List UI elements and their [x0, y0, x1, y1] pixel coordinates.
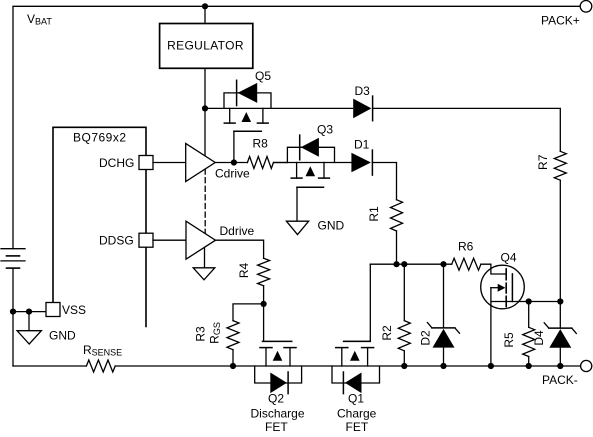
transistor Q5 (PMOS with body diode) [224, 80, 271, 131]
wire bottom rail to PACK- [115, 365, 580, 367]
resistor R4 [258, 258, 270, 286]
wire Q3 gate to ground [296, 187, 298, 221]
wire D3 to R7 [373, 108, 561, 151]
node D4 bottom [557, 363, 563, 369]
svg-text:D3: D3 [355, 84, 371, 98]
REGULATOR box [160, 24, 253, 69]
svg-text:R8: R8 [253, 137, 269, 151]
svg-text:GND: GND [49, 329, 76, 343]
wire left rail down to RSENSE rail [12, 312, 14, 366]
wire Q5 gate to Cdrive node [233, 131, 235, 162]
resistor RSENSE [86, 360, 115, 372]
resistor R8 [247, 157, 273, 169]
node Q4 source rail [488, 363, 494, 369]
terminal PACK- [581, 360, 592, 371]
transistor Q3 (PMOS with body diode) [287, 135, 334, 187]
svg-text:R7: R7 [536, 154, 550, 170]
svg-text:Charge: Charge [337, 407, 377, 421]
wire bottom rail left segment with RSENSE [13, 365, 86, 367]
pin DDSG [139, 233, 153, 247]
svg-text:D4: D4 [532, 330, 546, 346]
ground symbol at Q3 [286, 221, 308, 234]
wire Q3 rail [274, 162, 352, 164]
svg-text:R5: R5 [502, 332, 516, 348]
wire Q4 source to rail [490, 302, 492, 367]
wire top rail to regulator [204, 6, 206, 23]
wire RGS to source rail [232, 350, 234, 366]
wire R4 to gate node [263, 286, 265, 304]
wire Q5 rail [205, 107, 353, 109]
svg-text:GND: GND [318, 219, 345, 233]
svg-text:FET: FET [265, 420, 288, 434]
wire VSS node to VSS pin [13, 311, 46, 313]
wire DDSG to buffer [153, 239, 186, 241]
terminal PACK+ [580, 1, 592, 13]
diode D3 [353, 96, 372, 121]
wire CHG gate node rail [370, 263, 451, 265]
resistor R7 [554, 151, 566, 180]
BQ769x2 box (open bottom) [53, 127, 146, 326]
node R2 junction [401, 261, 407, 267]
node R5 bottom [526, 363, 532, 369]
node D2 source rail [440, 363, 446, 369]
buffer Cdrive [186, 144, 216, 182]
pin DCHG [139, 156, 153, 170]
resistor R2 [403, 264, 405, 320]
svg-text:R2: R2 [380, 325, 394, 341]
transistor Q4 (circled NMOS) [481, 264, 561, 309]
battery cell stack [1, 249, 25, 268]
svg-text:PACK-: PACK- [542, 373, 578, 387]
resistor R6 [452, 258, 481, 270]
transistor Q2 discharge FET [255, 341, 302, 393]
ground symbol at VSS [17, 312, 41, 344]
zener diode D2 [427, 264, 459, 366]
svg-text:R4: R4 [237, 263, 251, 279]
svg-text:Q1: Q1 [348, 392, 364, 406]
wire gate node to RGS [233, 304, 264, 321]
wire top rail V_BAT to PACK+ [13, 6, 580, 248]
node battery-VSS junction [10, 309, 16, 315]
wire R8 to Q3 [274, 162, 288, 164]
svg-text:DDSG: DDSG [99, 234, 134, 248]
wire Cdrive output to R8 [215, 162, 247, 164]
svg-text:REGULATOR: REGULATOR [167, 39, 244, 53]
node R1 junction [393, 261, 399, 267]
node D4 top [557, 298, 563, 304]
svg-text:Q4: Q4 [501, 251, 517, 265]
svg-text:Q3: Q3 [317, 123, 333, 137]
node GND junction [26, 309, 32, 315]
node R2 source rail [401, 363, 407, 369]
buffer Ddrive [186, 221, 216, 259]
svg-text:R1: R1 [367, 206, 381, 222]
wire gate node to Q2 gate [263, 304, 265, 342]
svg-text:Cdrive: Cdrive [215, 167, 250, 181]
wire Ddrive output to R4 [216, 240, 264, 258]
svg-text:R3: R3 [194, 326, 208, 342]
svg-text:D1: D1 [354, 138, 370, 152]
node RGS source [230, 363, 236, 369]
wire Q1 gate riser [344, 264, 371, 341]
node D2 junction [440, 261, 446, 267]
svg-text:FET: FET [346, 420, 369, 434]
wire DCHG to buffer [153, 162, 186, 164]
pin VSS [46, 303, 60, 317]
dashed link between drivers [204, 169, 206, 233]
wire regulator to Cdrive buffer supply [204, 68, 206, 156]
svg-text:BQ769x2: BQ769x2 [73, 131, 127, 145]
svg-text:D2: D2 [419, 330, 433, 346]
svg-text:Ddrive: Ddrive [220, 224, 255, 238]
wire D1 to R1 [372, 163, 396, 200]
ground symbol at Ddrive [193, 268, 215, 280]
svg-text:VSS: VSS [62, 303, 86, 317]
svg-text:DCHG: DCHG [99, 156, 134, 170]
wire battery bottom to VSS node [12, 268, 14, 312]
node top rail regulator junction [202, 3, 208, 9]
zener diode D4 [544, 302, 576, 367]
svg-text:R6: R6 [458, 240, 474, 254]
svg-text:PACK+: PACK+ [541, 14, 580, 28]
node DSG gate [261, 301, 267, 307]
svg-text:Discharge: Discharge [251, 407, 305, 421]
wire R7 to Q4 drain node [559, 180, 561, 301]
svg-text:Q2: Q2 [268, 392, 284, 406]
wire Ddrive ground stub [204, 248, 206, 268]
wire R1 to CHG gate node [396, 231, 398, 264]
node R5 top [526, 298, 532, 304]
resistor R1 [391, 200, 403, 231]
diode D1 [351, 150, 372, 175]
node Cdrive [231, 159, 237, 165]
svg-text:Q5: Q5 [255, 69, 271, 83]
resistor R3 RGS [227, 321, 239, 350]
node Q5 source junction [202, 105, 208, 111]
transistor Q1 charge FET [332, 341, 380, 393]
resistor R5 [528, 302, 530, 328]
